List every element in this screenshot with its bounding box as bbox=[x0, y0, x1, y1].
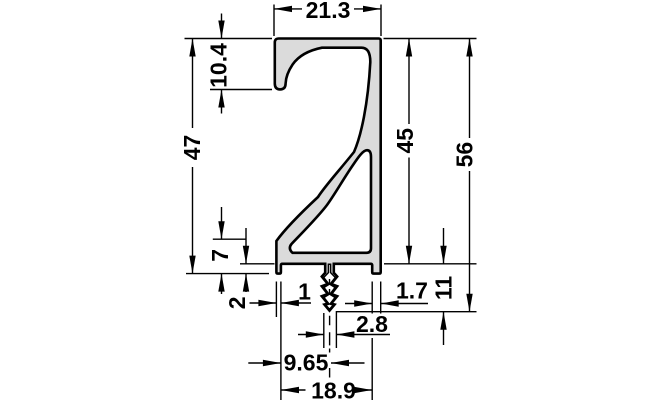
dimension 18.9 bbox=[281, 378, 372, 400]
dimension 7 bbox=[207, 207, 233, 294]
dimension 2 bbox=[224, 228, 250, 309]
svg-text:11: 11 bbox=[431, 276, 457, 301]
extension line, right foot left edge bbox=[371, 282, 373, 400]
dimension 9.65 bbox=[248, 350, 364, 376]
dimension 56 bbox=[452, 39, 478, 312]
profile cross-section body bbox=[275, 39, 381, 311]
extension line, lip bottom level bbox=[210, 89, 272, 91]
dimension 10.4 bbox=[206, 14, 232, 114]
screw channel slot bbox=[324, 264, 336, 309]
channel centerline (dashed) bbox=[329, 316, 331, 378]
extension line, foot bottom level bbox=[186, 273, 269, 275]
svg-text:2.8: 2.8 bbox=[356, 311, 388, 337]
svg-text:47: 47 bbox=[179, 135, 205, 161]
dimension 1 bbox=[250, 279, 312, 307]
extension line, profile left top bbox=[273, 5, 275, 37]
svg-text:18.9: 18.9 bbox=[311, 378, 356, 400]
dimension 47 bbox=[179, 39, 205, 274]
svg-text:1.7: 1.7 bbox=[396, 278, 428, 304]
extension line, right foot right edge bbox=[380, 282, 382, 314]
channel centerline inside slot bbox=[329, 279, 331, 295]
dimension 21.3 bbox=[274, 0, 381, 23]
svg-text:9.65: 9.65 bbox=[284, 350, 329, 376]
dimension 45 bbox=[392, 39, 418, 264]
dimension 11 bbox=[431, 228, 457, 345]
svg-text:21.3: 21.3 bbox=[306, 0, 351, 23]
extension line, channel right edge bbox=[335, 311, 337, 348]
extension line, flange bottom level, left bbox=[240, 263, 275, 265]
svg-text:45: 45 bbox=[392, 128, 418, 154]
svg-text:56: 56 bbox=[452, 142, 478, 168]
extension line, top edge level, right bbox=[384, 38, 477, 40]
svg-text:10.4: 10.4 bbox=[206, 43, 232, 88]
dimension 1.7 bbox=[345, 278, 428, 307]
extension line, left foot right edge bbox=[280, 282, 282, 400]
extension line, profile right top bbox=[380, 5, 382, 37]
extension line, left foot left edge bbox=[275, 282, 277, 318]
extension line, flange bottom level, right bbox=[384, 263, 477, 265]
svg-text:7: 7 bbox=[207, 249, 233, 262]
svg-text:2: 2 bbox=[224, 296, 250, 309]
extension line, channel tip level bbox=[337, 311, 477, 313]
svg-text:1: 1 bbox=[298, 279, 311, 305]
extension line, curve end level bbox=[213, 238, 247, 240]
dimension 2.8 bbox=[298, 311, 390, 338]
extension line, top edge level, left bbox=[185, 38, 273, 40]
extension line, channel left edge bbox=[323, 313, 325, 348]
